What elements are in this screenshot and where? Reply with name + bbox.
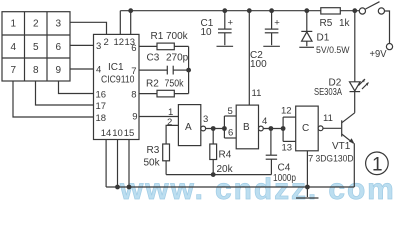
wire A out to B in bbox=[205, 128, 224, 130]
svg-text:11: 11 bbox=[323, 113, 333, 124]
svg-text:12: 12 bbox=[114, 37, 125, 48]
svg-text:3: 3 bbox=[203, 114, 208, 125]
ground bbox=[306, 187, 308, 197]
svg-text:17: 17 bbox=[96, 101, 107, 112]
node pin15 bbox=[127, 185, 132, 190]
wire IC pin9 to gate A pin1 bbox=[139, 116, 178, 118]
zener D1 5V/0.5W bbox=[304, 8, 309, 13]
node C input tie bbox=[281, 126, 286, 131]
svg-text:12: 12 bbox=[281, 106, 292, 117]
svg-text:8: 8 bbox=[33, 65, 39, 76]
+9V terminal bbox=[386, 44, 392, 50]
wire keypad col3 to IC pin16 bbox=[59, 81, 94, 94]
svg-text:1k: 1k bbox=[339, 18, 351, 29]
resistor R2 750k bbox=[157, 90, 174, 97]
svg-text:B: B bbox=[243, 122, 250, 133]
svg-text:C3: C3 bbox=[147, 53, 160, 64]
svg-text:+: + bbox=[228, 18, 234, 29]
svg-text:9: 9 bbox=[132, 112, 137, 123]
svg-text:15: 15 bbox=[124, 128, 135, 139]
figure number bbox=[366, 152, 389, 175]
svg-text:270p: 270p bbox=[166, 53, 189, 64]
IC1 CIC9110 bbox=[94, 34, 140, 139]
resistor R3 50k bbox=[163, 144, 170, 161]
wire IC pin7 to C3 bbox=[139, 69, 167, 71]
svg-text:700k: 700k bbox=[166, 31, 189, 42]
capacitor C3 270p bbox=[167, 66, 173, 75]
svg-text:50k: 50k bbox=[144, 158, 161, 169]
svg-text:6: 6 bbox=[131, 43, 136, 54]
wire gate A pin2 jog bbox=[166, 125, 178, 144]
svg-text:3DG130D: 3DG130D bbox=[316, 154, 354, 165]
capacitor C1 10 bbox=[222, 8, 227, 13]
svg-text:13: 13 bbox=[282, 143, 293, 154]
gate B bbox=[236, 105, 258, 149]
svg-text:4: 4 bbox=[262, 116, 267, 127]
gate C input tie pins 12,13 bbox=[283, 117, 296, 141]
wire keypad col1 to IC pin18 bbox=[13, 81, 94, 117]
svg-text:7: 7 bbox=[11, 65, 17, 76]
node C2 wire bbox=[247, 8, 252, 13]
svg-text:SE303A: SE303A bbox=[314, 87, 342, 98]
node B input tie bbox=[222, 126, 227, 131]
capacitor C2 100 bbox=[269, 8, 274, 13]
svg-text:R3: R3 bbox=[147, 145, 160, 156]
wire IC pin8 to R2 bbox=[139, 93, 189, 95]
node R4 bottom bbox=[211, 172, 216, 177]
svg-text:www. cndzz. com: www. cndzz. com bbox=[119, 173, 394, 203]
capacitor C4 1000p bbox=[270, 129, 272, 156]
svg-text:3: 3 bbox=[96, 41, 101, 52]
svg-text:3: 3 bbox=[56, 19, 62, 30]
wire IC pin12 up bbox=[119, 11, 121, 35]
svg-text:C: C bbox=[302, 123, 309, 134]
svg-text:IC1: IC1 bbox=[108, 62, 124, 73]
svg-text:14: 14 bbox=[101, 128, 112, 139]
svg-text:+: + bbox=[274, 18, 280, 29]
svg-text:CIC9110: CIC9110 bbox=[101, 75, 135, 86]
node ground tap bbox=[305, 185, 310, 190]
svg-text:9: 9 bbox=[56, 65, 62, 76]
svg-text:5V/0.5W: 5V/0.5W bbox=[316, 45, 350, 56]
resistor R1 700k bbox=[157, 43, 174, 50]
bottom rail bbox=[106, 186, 354, 188]
svg-text:6: 6 bbox=[56, 42, 62, 53]
node D2 tap bbox=[352, 8, 357, 13]
svg-text:20k: 20k bbox=[217, 164, 234, 175]
svg-text:8: 8 bbox=[131, 90, 136, 101]
wire C2 node down to B pin 11 bbox=[248, 11, 250, 105]
node R4 tap bbox=[211, 126, 216, 131]
svg-text:18: 18 bbox=[96, 113, 107, 124]
svg-text:2: 2 bbox=[167, 117, 172, 128]
keypad 3x3 bbox=[2, 12, 70, 81]
node C4 tap bbox=[269, 126, 274, 131]
svg-text:1: 1 bbox=[11, 19, 17, 30]
svg-text:6: 6 bbox=[228, 128, 233, 139]
svg-text:1000p: 1000p bbox=[273, 173, 296, 184]
wire keypad row3 to IC pin4 bbox=[70, 68, 94, 70]
svg-text:2: 2 bbox=[104, 37, 109, 48]
node pin13/top rail bbox=[128, 8, 133, 13]
svg-text:R1: R1 bbox=[151, 31, 164, 42]
gate A bbox=[178, 105, 200, 146]
svg-text:R4: R4 bbox=[219, 150, 232, 161]
svg-text:7: 7 bbox=[308, 154, 313, 165]
svg-text:10: 10 bbox=[201, 27, 213, 38]
svg-text:1: 1 bbox=[372, 155, 383, 176]
svg-text:11: 11 bbox=[252, 88, 262, 99]
wire IC pin6 to R1 bbox=[139, 45, 189, 47]
wire IC pin13 up bbox=[130, 11, 132, 35]
svg-text:16: 16 bbox=[96, 90, 107, 101]
node pin10 bbox=[115, 185, 120, 190]
tie line R1/C3/R2 bbox=[188, 46, 190, 93]
gate A output bubble bbox=[201, 126, 206, 131]
gate C output bubble bbox=[318, 126, 323, 131]
wire keypad row2 to IC pin3 bbox=[70, 44, 94, 46]
wire C pin7 to ground rail bbox=[306, 151, 308, 187]
wire keypad row1 to IC pin2 bbox=[70, 22, 107, 34]
svg-text:R5: R5 bbox=[320, 18, 333, 29]
wire B out to C in bbox=[263, 128, 283, 130]
node C3 tie bbox=[186, 68, 191, 73]
wire keypad col2 to IC pin17 bbox=[36, 81, 94, 105]
LED D2 SE303A bbox=[354, 11, 356, 82]
svg-text:5: 5 bbox=[33, 42, 39, 53]
resistor R4 20k bbox=[212, 129, 214, 145]
gate B input tie pins 5,6 bbox=[224, 116, 236, 138]
svg-text:D1: D1 bbox=[317, 33, 330, 44]
svg-text:VT1: VT1 bbox=[332, 141, 351, 152]
svg-text:2: 2 bbox=[33, 19, 39, 30]
svg-text:C4: C4 bbox=[278, 163, 291, 174]
mid rail R3/R4/C4 bbox=[166, 174, 271, 176]
top rail bbox=[120, 10, 359, 12]
svg-text:100: 100 bbox=[250, 59, 267, 70]
svg-text:4: 4 bbox=[11, 42, 17, 53]
resistor R5 1k bbox=[321, 8, 341, 14]
svg-text:5: 5 bbox=[228, 106, 233, 117]
svg-text:A: A bbox=[185, 122, 192, 133]
svg-text:+9V: +9V bbox=[370, 49, 387, 60]
svg-text:10: 10 bbox=[112, 128, 123, 139]
svg-text:750k: 750k bbox=[165, 79, 185, 90]
gate B output bubble bbox=[259, 126, 264, 131]
gate C bbox=[296, 106, 319, 151]
transistor VT1 3DG130D bbox=[323, 127, 342, 129]
wires IC pins 14,10,15 down bbox=[105, 140, 107, 188]
switch bbox=[359, 8, 365, 14]
svg-text:R2: R2 bbox=[146, 79, 159, 90]
